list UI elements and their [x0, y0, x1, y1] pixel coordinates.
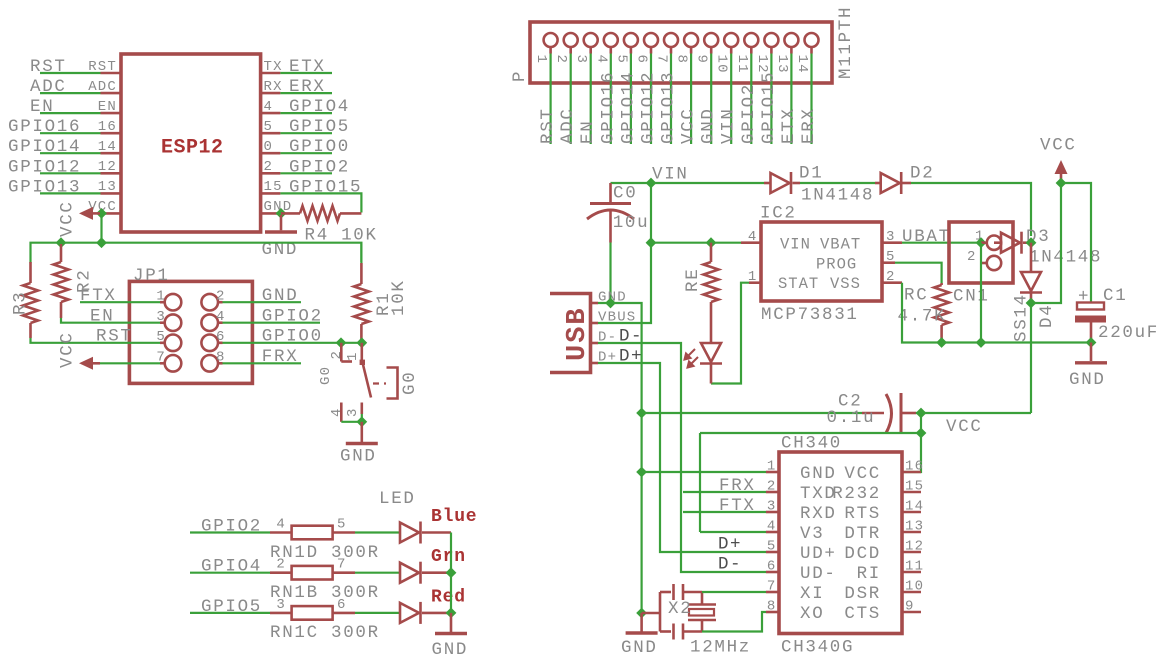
svg-text:GPIO2: GPIO2	[289, 157, 350, 177]
JP1 pin 6 pad	[201, 335, 218, 352]
wire ground rail	[942, 341, 1091, 343]
svg-text:RXD: RXD	[800, 504, 837, 524]
wire JP1 pin6 net GPIO0 to switch	[223, 342, 362, 344]
M11PTH pin 8 pad	[684, 33, 698, 47]
svg-text:DCD: DCD	[844, 544, 881, 564]
svg-text:ADC: ADC	[558, 107, 578, 144]
svg-text:GPIO5: GPIO5	[289, 117, 350, 137]
ESP12 right pin 15 stub	[261, 192, 281, 195]
status LED cathode lead	[710, 365, 713, 384]
svg-text:2: 2	[329, 350, 345, 360]
svg-text:RI: RI	[857, 564, 881, 584]
svg-text:16: 16	[98, 119, 117, 135]
LED Grn diode	[400, 562, 421, 584]
wire D1 to D2	[800, 182, 875, 184]
svg-text:STAT: STAT	[778, 275, 819, 293]
RN1C right lead	[333, 612, 355, 615]
svg-text:4: 4	[329, 407, 345, 417]
svg-text:GND: GND	[262, 286, 299, 306]
svg-text:GND: GND	[621, 638, 658, 658]
RN1C left lead	[270, 612, 292, 615]
junction RC / ground rail	[936, 337, 947, 348]
JP1 pin 7 stub	[160, 362, 165, 365]
svg-text:7: 7	[654, 55, 670, 65]
svg-text:RN1C 300R: RN1C 300R	[270, 623, 380, 643]
CH340 pin 2 stub	[766, 491, 779, 494]
switch lever	[363, 363, 372, 398]
svg-text:VCC: VCC	[679, 107, 699, 144]
X2 cap common bar	[659, 592, 662, 632]
svg-text:ETX: ETX	[779, 107, 799, 144]
R4 left lead	[281, 212, 300, 215]
wire net GPIO2	[280, 172, 332, 174]
M11PTH pin 5 stub	[630, 48, 633, 54]
wire resistor to LED	[355, 572, 400, 574]
USB pin D- stub	[591, 342, 599, 345]
svg-text:3: 3	[345, 407, 361, 417]
wire net GPIO12	[650, 54, 652, 145]
wire CN1 pin1 to pin2	[980, 243, 982, 263]
wire net D+ to CH340 UD+	[598, 363, 766, 552]
wire VCC rail under ESP	[31, 243, 362, 263]
JP1 pin 1 pad	[165, 294, 182, 311]
M11PTH pin 3 stub	[589, 48, 592, 54]
svg-text:7: 7	[767, 579, 777, 595]
svg-text:1: 1	[345, 351, 361, 361]
svg-text:GPIO16: GPIO16	[598, 71, 618, 144]
C1 bottom lead	[1090, 322, 1093, 343]
svg-text:15: 15	[264, 179, 283, 195]
svg-text:2: 2	[767, 479, 777, 495]
JP1 pin 8 stub	[218, 362, 223, 365]
svg-text:3: 3	[573, 55, 589, 65]
svg-text:VIN: VIN	[719, 107, 739, 144]
wire net ERX	[810, 54, 812, 145]
junction GND / C2	[636, 408, 647, 419]
CN1 pin 2 pad	[987, 256, 1001, 270]
wire net ETX	[280, 72, 332, 74]
svg-text:VCC: VCC	[58, 200, 78, 237]
diode D4 SS14	[1020, 272, 1042, 293]
resistor RN1C	[292, 606, 333, 620]
svg-text:XO: XO	[800, 604, 824, 624]
wire net FTX	[683, 511, 766, 513]
svg-text:GPIO14: GPIO14	[618, 71, 638, 144]
VCC arrow shaft	[1060, 172, 1063, 183]
CH340 pin 12 stub	[902, 551, 921, 554]
svg-text:VCC: VCC	[844, 464, 881, 484]
svg-text:EN: EN	[30, 97, 54, 117]
resistor R4	[300, 206, 340, 221]
svg-text:GND: GND	[1069, 370, 1106, 390]
JP1 pin 3 stub	[160, 321, 165, 324]
ESP12 left pin 12 stub	[101, 172, 122, 175]
M11PTH pin 11 stub	[750, 48, 753, 54]
wire C0 to USB GND net	[609, 243, 611, 304]
junction GPIO0 / R1 / switch pin1	[356, 337, 367, 348]
wire VIN to D1	[651, 182, 764, 184]
svg-text:2: 2	[967, 249, 977, 265]
RN1D left lead	[270, 531, 292, 534]
svg-text:GPIO2: GPIO2	[262, 307, 323, 327]
svg-text:VIN: VIN	[652, 165, 689, 185]
IC IC2 MCP73831 body	[761, 222, 882, 301]
svg-text:D+: D+	[718, 535, 742, 555]
X2 ground lead	[642, 612, 660, 615]
D2 anode lead	[875, 182, 881, 185]
ESP12 right pin GND stub	[261, 212, 281, 215]
ESP12 left pin 16 stub	[101, 132, 122, 135]
svg-text:12: 12	[905, 539, 924, 555]
M11PTH pin 14 pad	[805, 33, 819, 47]
junction GPIO0 / switch pin2	[336, 337, 347, 348]
svg-text:GPIO13: GPIO13	[8, 177, 81, 197]
junction ESP GND pin	[276, 208, 287, 219]
svg-text:P: P	[510, 70, 530, 82]
LED cathode lead	[422, 571, 451, 574]
X2 bottom cap to XO wire	[683, 630, 702, 633]
wire VCC to CH340 V3 and VCC pin	[700, 433, 921, 472]
CH340 pin 5 stub	[766, 551, 779, 554]
supply symbol VCC (arrow up)	[1055, 160, 1068, 183]
CH340 pin 15 stub	[902, 491, 921, 494]
svg-text:3: 3	[276, 597, 286, 613]
svg-text:GPIO14: GPIO14	[8, 137, 81, 157]
M11PTH pin 8 stub	[690, 48, 693, 54]
switch pin3 lead	[360, 403, 363, 415]
svg-text:13: 13	[774, 55, 790, 74]
connector USB body	[550, 294, 591, 373]
junction ESP VCC pin	[96, 208, 107, 219]
ground symbol (LED)	[435, 632, 467, 635]
svg-text:2: 2	[553, 55, 569, 65]
wire VIN node down	[650, 183, 652, 243]
svg-text:LED: LED	[379, 489, 416, 509]
wire C0 to VIN node	[611, 182, 652, 184]
D3 cathode lead	[1023, 241, 1031, 244]
ESP12 right pin RX stub	[261, 92, 281, 95]
wire net GPIO16	[40, 132, 101, 134]
JP1 pin 3 pad	[165, 314, 182, 331]
M11PTH pin 14 stub	[810, 48, 813, 54]
LED Red diode	[400, 602, 421, 624]
status LED diode	[700, 343, 722, 364]
wire STAT to status LED	[711, 283, 749, 384]
svg-text:Grn: Grn	[431, 547, 466, 567]
R3 top lead	[29, 262, 32, 283]
capacitor C1 (polarized)	[1075, 303, 1106, 343]
wire net GPIO4 to resistor	[190, 572, 270, 574]
USB pin GND stub	[591, 302, 599, 305]
wire net GPIO16	[610, 54, 612, 145]
M11PTH pin 1 stub	[549, 48, 552, 54]
svg-text:EN: EN	[90, 307, 114, 327]
svg-text:1: 1	[767, 459, 777, 475]
IC2 pin1 stub	[749, 281, 761, 284]
svg-text:6: 6	[634, 55, 650, 65]
switch G0 (pushbutton)	[318, 343, 420, 422]
RE bottom lead	[710, 302, 713, 343]
svg-text:VIN: VIN	[780, 236, 811, 254]
X2 top cap lead	[660, 591, 671, 594]
wire LED cathode rail	[450, 533, 452, 613]
M11PTH pin 6 pad	[644, 33, 658, 47]
CH340 pin 1 stub	[766, 471, 779, 474]
svg-text:RN1B 300R: RN1B 300R	[270, 583, 380, 603]
CH340 pin 10 stub	[902, 591, 921, 594]
svg-text:GND: GND	[699, 107, 719, 144]
svg-text:4: 4	[748, 229, 758, 245]
wire net GPIO4	[280, 112, 332, 114]
wire net GPIO2	[750, 54, 752, 145]
svg-text:VCC: VCC	[1040, 136, 1077, 156]
C0 bottom lead	[609, 211, 612, 243]
resistor RE	[704, 262, 719, 302]
X2 bottom cap lead	[660, 630, 671, 633]
svg-text:GPIO2: GPIO2	[201, 517, 262, 537]
svg-text:GPIO0: GPIO0	[289, 137, 350, 157]
wire X2 to CH340 XO	[702, 612, 766, 632]
svg-text:13: 13	[905, 519, 924, 535]
wire net D- to CH340 UD-	[598, 343, 766, 572]
svg-text:TXD: TXD	[800, 484, 837, 504]
GND stem (ESP)	[280, 215, 283, 230]
CH340 pin 8 stub	[766, 611, 779, 614]
svg-text:2: 2	[264, 159, 274, 175]
svg-text:FTX: FTX	[719, 496, 756, 516]
supply symbol VCC (JP1 pin7)	[79, 357, 100, 370]
svg-text:RC: RC	[904, 286, 928, 306]
svg-text:M11PTH: M11PTH	[836, 6, 856, 79]
junction switch to ground	[356, 416, 367, 427]
wire VBUS to VIN node	[598, 243, 651, 323]
JP1 pin 5 stub	[160, 341, 165, 344]
wire net GND	[710, 54, 712, 145]
svg-text:FTX: FTX	[80, 286, 117, 306]
RN1B left lead	[270, 571, 292, 574]
svg-text:RX: RX	[264, 79, 283, 95]
junction GND / CH340 pin1	[636, 467, 647, 478]
svg-text:15: 15	[905, 479, 924, 495]
svg-text:9: 9	[694, 55, 710, 65]
svg-text:DTR: DTR	[844, 524, 881, 544]
wire VCC rail down to R1	[360, 243, 362, 263]
CH340 pin 6 stub	[766, 571, 779, 574]
svg-text:GPIO2: GPIO2	[739, 83, 759, 144]
ESP12 left pin 13 stub	[101, 192, 122, 195]
svg-text:MCP73831: MCP73831	[761, 305, 859, 325]
svg-text:UD+: UD+	[800, 544, 837, 564]
M11PTH pin 7 stub	[670, 48, 673, 54]
svg-text:4: 4	[593, 55, 609, 65]
svg-text:R3: R3	[11, 291, 31, 315]
svg-text:8: 8	[674, 55, 690, 65]
wire switch pin3/pin4 tie	[341, 414, 362, 422]
wire X2 to CH340 XI	[702, 591, 766, 593]
JP1 pin 4 stub	[218, 321, 223, 324]
connector JP1 body	[129, 281, 252, 383]
svg-text:DSR: DSR	[844, 584, 881, 604]
svg-text:TX: TX	[264, 59, 283, 75]
D4 anode lead	[1030, 243, 1033, 272]
svg-text:GPIO12: GPIO12	[8, 157, 81, 177]
junction VCC rail / R2	[56, 237, 67, 248]
junction LED rail / ground	[446, 608, 457, 619]
wire net GPIO5 to resistor	[190, 612, 270, 614]
wire VSS to ground rail	[902, 283, 942, 343]
svg-text:ERX: ERX	[799, 107, 819, 144]
IC CH340 body	[779, 452, 902, 634]
M11PTH pin 4 pad	[604, 33, 618, 47]
svg-text:10u: 10u	[613, 213, 650, 233]
wire JP1 pin2 net GND	[223, 301, 302, 303]
M11PTH pin 13 stub	[790, 48, 793, 54]
GND stem (X2)	[640, 613, 643, 632]
svg-text:0: 0	[264, 139, 274, 155]
JP1 pin 4 pad	[201, 314, 218, 331]
M11PTH pin 10 pad	[724, 33, 738, 47]
svg-text:ESP12: ESP12	[161, 137, 224, 160]
M11PTH pin 12 stub	[770, 48, 773, 54]
JP1 pin 8 pad	[201, 355, 218, 372]
wire resistor to LED	[355, 531, 400, 533]
wire net GPIO12	[40, 172, 101, 174]
wire R2 to JP1 pin3 net EN	[61, 318, 160, 323]
wire net GPIO14	[40, 152, 101, 154]
CN1 pin 1 pad	[987, 236, 1001, 250]
wire VCC to C1	[1061, 183, 1091, 302]
svg-text:1N4148: 1N4148	[801, 186, 874, 206]
junction D4 / VCC	[1026, 298, 1037, 309]
ESP12 right pin TX stub	[261, 72, 281, 75]
LED Blue diode	[400, 522, 421, 544]
svg-text:Blue: Blue	[431, 507, 477, 527]
svg-text:VSS: VSS	[830, 275, 861, 293]
svg-text:C1: C1	[1103, 286, 1127, 306]
junction CN1 / ground rail	[976, 337, 987, 348]
ESP12 left pin VCC stub	[101, 212, 122, 215]
M11PTH pin 13 pad	[784, 33, 798, 47]
CH340 pin 14 stub	[902, 511, 921, 514]
M11PTH pin 9 pad	[704, 33, 718, 47]
svg-text:12: 12	[98, 159, 117, 175]
junction C1 / ground rail	[1086, 337, 1097, 348]
GND stem (C1)	[1090, 343, 1093, 362]
RC bottom lead	[940, 325, 943, 343]
switch actuator bracket	[387, 368, 398, 399]
svg-text:4.7K: 4.7K	[898, 307, 947, 327]
svg-text:EN: EN	[98, 99, 117, 115]
LED cathode lead	[422, 531, 451, 534]
svg-text:4: 4	[264, 99, 274, 115]
CH340 pin 13 stub	[902, 531, 921, 534]
svg-text:GPIO13: GPIO13	[659, 71, 679, 144]
RN1D right lead	[333, 531, 355, 534]
junction VCC rail / ESP VCC	[96, 237, 107, 248]
wire net EN	[590, 54, 592, 145]
svg-text:D-: D-	[718, 555, 742, 575]
svg-text:X2: X2	[668, 599, 692, 619]
M11PTH pin 2 pad	[564, 33, 578, 47]
junction VCC node	[1056, 178, 1067, 189]
wire net VIN	[730, 54, 732, 145]
diode D2	[881, 172, 902, 194]
ESP12 left pin RST stub	[101, 72, 122, 75]
svg-text:5: 5	[337, 517, 347, 533]
svg-text:6: 6	[337, 597, 347, 613]
svg-text:ERX: ERX	[289, 77, 326, 97]
junction C0 / USB GND	[605, 298, 616, 309]
wire JP1 pin8 net FRX	[223, 362, 302, 364]
svg-text:10: 10	[905, 579, 924, 595]
M11PTH pin 1 pad	[544, 33, 558, 47]
wire C2 to VCC vertical	[916, 412, 1031, 414]
wire VCC node down	[920, 413, 922, 433]
CH340 pin 3 stub	[766, 511, 779, 514]
wire GND to C2	[642, 412, 862, 414]
C0 top lead	[609, 183, 612, 203]
svg-text:GPIO4: GPIO4	[289, 97, 350, 117]
svg-text:5: 5	[767, 539, 777, 555]
wire net ADC	[40, 92, 101, 94]
IC2 pin4 stub	[741, 241, 761, 244]
RE top lead	[710, 243, 713, 262]
wire net ERX	[280, 92, 332, 94]
svg-text:GPIO0: GPIO0	[262, 327, 323, 347]
diode D3	[1001, 232, 1022, 254]
CH340 pin 4 stub	[766, 531, 779, 534]
X2 top cap to crystal	[683, 591, 702, 594]
IC2 pin3 stub	[882, 241, 902, 244]
svg-text:6: 6	[767, 559, 777, 575]
diode D1	[771, 172, 792, 194]
ground symbol (X2)	[626, 631, 658, 634]
svg-text:CN1: CN1	[953, 287, 990, 307]
JP1 pin 5 pad	[165, 335, 182, 352]
wire resistor to LED	[355, 612, 400, 614]
svg-text:RST: RST	[96, 327, 133, 347]
wire JP1 pin4 net GPIO2	[223, 322, 321, 324]
svg-text:GND: GND	[432, 640, 469, 660]
ESP12 left pin ADC stub	[101, 92, 122, 95]
wire D4 to VCC node	[1031, 183, 1061, 303]
R2 bottom lead	[60, 302, 63, 318]
wire net EN	[40, 112, 101, 114]
junction GND / X2	[636, 608, 647, 619]
svg-text:4: 4	[767, 519, 777, 535]
svg-text:1: 1	[533, 55, 549, 65]
wire net GPIO14	[630, 54, 632, 145]
wire VCC down to C2 rail	[1030, 303, 1032, 413]
junction VIN / VBUS / IC2 VIN	[646, 237, 657, 248]
JP1 pin 1 stub	[160, 301, 165, 304]
svg-text:10: 10	[714, 55, 730, 74]
D3 anode lead	[994, 241, 1001, 244]
wire D2 to D3/D4 node	[911, 183, 1031, 236]
C2 right lead	[901, 412, 916, 415]
ESP12 left pin 14 stub	[101, 152, 122, 155]
svg-text:PROG: PROG	[816, 255, 857, 273]
CH340 pin 11 stub	[902, 571, 921, 574]
resistor R3	[23, 283, 38, 323]
switch pin4 bracket lead	[340, 403, 343, 422]
JP1 pin 2 pad	[201, 294, 218, 311]
switch pin2 bracket	[341, 360, 352, 363]
ground symbol (ESP GND pin)	[265, 230, 297, 233]
resistor RC	[934, 285, 949, 325]
M11PTH pin 5 pad	[624, 33, 638, 47]
wire PROG to RC	[895, 263, 942, 283]
